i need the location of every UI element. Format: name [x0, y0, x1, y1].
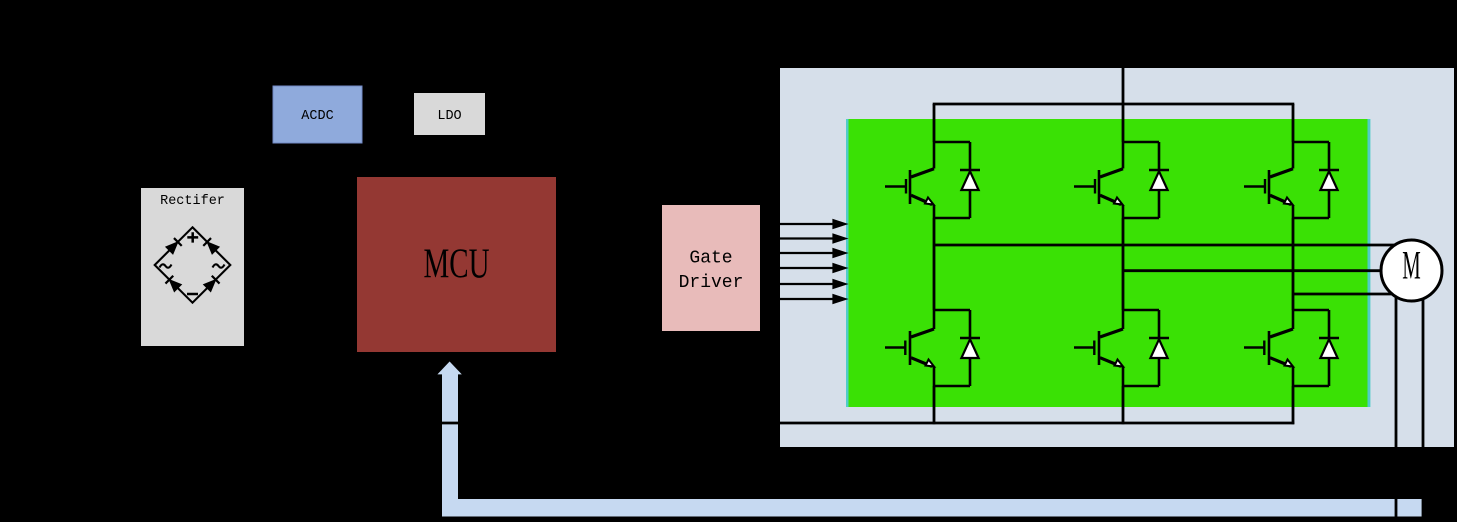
svg-text:Driver: Driver [679, 273, 744, 293]
svg-text:MCU: MCU [423, 240, 489, 287]
svg-text:ACDC: ACDC [301, 109, 333, 124]
svg-text:M: M [1402, 243, 1420, 287]
svg-text:LDO: LDO [437, 109, 461, 124]
svg-text:Gate: Gate [689, 249, 732, 269]
svg-text:Rectifer: Rectifer [160, 194, 225, 209]
